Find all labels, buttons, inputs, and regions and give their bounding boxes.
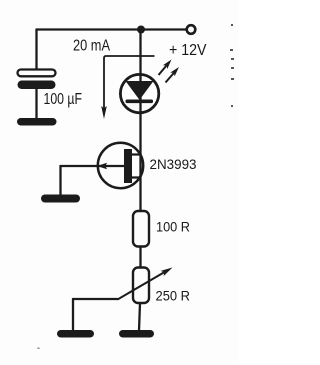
svg-text:2N3993: 2N3993 <box>150 156 197 172</box>
svg-text:+ 12V: + 12V <box>169 42 207 59</box>
svg-text:100 R: 100 R <box>156 218 190 234</box>
svg-text:20 mA: 20 mA <box>73 38 110 55</box>
svg-text:250 R: 250 R <box>156 287 191 303</box>
svg-text:100 µF: 100 µF <box>44 91 83 108</box>
